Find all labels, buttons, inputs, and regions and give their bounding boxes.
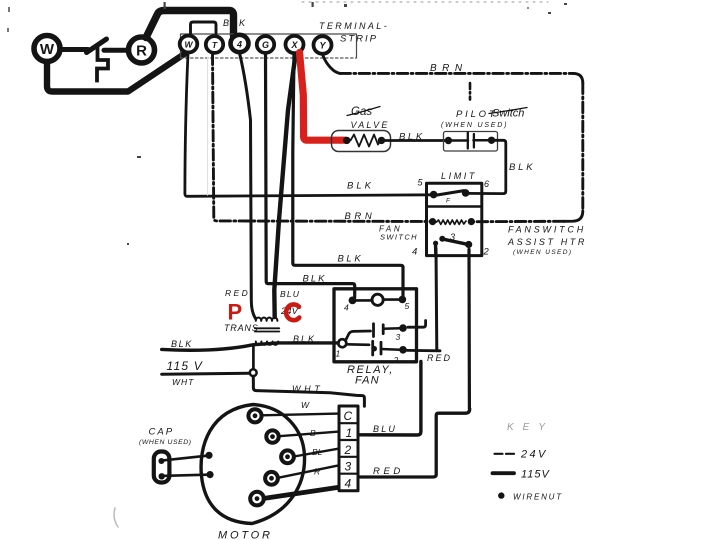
- wire terminal G to relay 4 (BLK): [266, 54, 355, 297]
- capacitor outline: [154, 452, 170, 483]
- pilot switch contact bar 2: [473, 134, 475, 148]
- relay coil terminal dot 5: [399, 296, 407, 304]
- svg-text:6: 6: [484, 179, 489, 189]
- svg-text:LIMIT: LIMIT: [441, 171, 477, 181]
- svg-text:(WHEN USED): (WHEN USED): [139, 439, 192, 446]
- terminal T: [206, 36, 223, 53]
- svg-text:TRANS: TRANS: [224, 323, 259, 333]
- wire BLU run motor block 1 to relay: [359, 362, 421, 436]
- wire terminal T to fan switch heater (BRN dashed): [213, 54, 433, 222]
- SECTION: speckles: [7, 2, 567, 527]
- SECTION: key: [493, 422, 563, 502]
- svg-text:MOTOR: MOTOR: [218, 530, 273, 540]
- motor terminal C: [248, 409, 261, 422]
- thermostat terminal R: [129, 37, 155, 63]
- svg-text:WIRENUT: WIRENUT: [513, 493, 563, 502]
- svg-text:BLK: BLK: [509, 162, 535, 173]
- svg-text:BL: BL: [312, 447, 323, 457]
- relay lower contact arm: [347, 343, 370, 346]
- wire R to strip terminal 4 (BLK): [146, 11, 234, 38]
- svg-text:(WHEN USED): (WHEN USED): [513, 249, 572, 256]
- svg-text:2: 2: [344, 443, 352, 457]
- wire BRN right vertical: [581, 83, 584, 211]
- relay upper contact wire to 3: [383, 327, 400, 330]
- wire 115V BLK feed to relay 1: [162, 343, 339, 350]
- SECTION: fan switch: [379, 218, 587, 409]
- relay coil wire left: [354, 299, 372, 302]
- wire relay 3 stub: [408, 321, 426, 328]
- limit contact dot 6: [462, 189, 470, 197]
- wire BRN stub above pilot switch: [469, 83, 472, 100]
- pilot switch wire from contact: [474, 139, 489, 142]
- svg-text:RED: RED: [427, 353, 452, 363]
- svg-text:BRN: BRN: [345, 211, 376, 222]
- block divider 2/3: [339, 456, 358, 458]
- wire W bottom to strip terminal W: [47, 54, 185, 92]
- pilot switch wire to contact: [451, 139, 468, 142]
- svg-text:1: 1: [346, 426, 353, 440]
- junction dot cap wire top: [205, 452, 212, 459]
- svg-text:TERMINAL-: TERMINAL-: [319, 21, 389, 31]
- svg-text:BLU: BLU: [280, 289, 300, 299]
- motor terminal 3: [265, 472, 278, 485]
- relay upper contact arm: [346, 331, 371, 341]
- thermostat switch blade: [87, 39, 107, 53]
- svg-text:BLK: BLK: [223, 18, 248, 28]
- wire motor 4 to block 4 (115V): [264, 487, 339, 498]
- motor terminal 1: [266, 430, 278, 442]
- pilot switch label flourish: [489, 108, 527, 114]
- relay contact dot 2: [399, 346, 407, 354]
- wire fan switch 4 down to relay 2: [435, 249, 439, 351]
- wire BRN into heater: [471, 220, 564, 223]
- relay coil wire right: [383, 298, 399, 301]
- transformer secondary winding (24V): [256, 318, 278, 321]
- heat anticipator: [97, 47, 108, 81]
- svg-text:24V: 24V: [520, 449, 548, 461]
- svg-text:3: 3: [396, 332, 401, 342]
- terminal 4: [231, 35, 249, 52]
- pilot switch dot left: [445, 137, 452, 144]
- SECTION: transformer + 115V: [162, 288, 365, 406]
- terminal G: [257, 36, 274, 53]
- wire pilot switch to limit 6 (BLK): [466, 140, 506, 193]
- key wirenut dot: [498, 492, 504, 498]
- svg-text:BLK: BLK: [347, 181, 374, 192]
- svg-text:KEY: KEY: [507, 422, 554, 433]
- relay lower contact wire to 2: [381, 348, 400, 351]
- relay contact dot 3: [399, 324, 407, 332]
- relay lower contact blob: [371, 346, 377, 352]
- wire WHT to motor block C: [253, 376, 364, 406]
- terminal Y: [314, 36, 332, 54]
- svg-text:4: 4: [345, 477, 352, 491]
- limit switch blade: [434, 191, 464, 196]
- wire 115V WHT feed: [162, 372, 250, 376]
- wire gas valve to pilot switch (BLK): [385, 139, 448, 142]
- svg-text:WHT: WHT: [172, 377, 194, 387]
- relay upper contact bar 1: [372, 324, 375, 337]
- svg-text:VALVE: VALVE: [351, 120, 390, 130]
- terminal W: [180, 36, 198, 53]
- svg-text:BLK: BLK: [293, 334, 316, 344]
- wire BRN right corner: [573, 73, 583, 83]
- svg-text:RED: RED: [225, 288, 250, 298]
- relay lower contact bar 1: [371, 341, 374, 355]
- terminal strip box: [181, 34, 357, 58]
- SECTION: gas valve / pilot / limit: [332, 106, 536, 256]
- wirenut: [250, 369, 257, 376]
- svg-text:CAP: CAP: [149, 427, 175, 438]
- block divider 1/2: [339, 439, 358, 441]
- wire motor 1 to block 1 (B): [279, 432, 339, 437]
- jumper W-T: [191, 22, 217, 33]
- svg-text:(WHEN USED): (WHEN USED): [441, 122, 508, 129]
- capacitor terminal top: [158, 458, 164, 464]
- svg-text:ASSIST HTR: ASSIST HTR: [507, 237, 587, 247]
- svg-text:5: 5: [405, 301, 410, 311]
- relay lower contact bar 2: [380, 342, 383, 354]
- wire capacitor to motor bottom: [165, 475, 207, 476]
- terminal X: [286, 36, 304, 53]
- svg-text:115 V: 115 V: [167, 359, 203, 373]
- svg-text:P: P: [228, 300, 243, 325]
- svg-text:Y: Y: [319, 41, 326, 51]
- SECTION: motor: [139, 400, 358, 540]
- wire switch to R: [104, 48, 127, 53]
- svg-text:BLK: BLK: [338, 254, 364, 265]
- SECTION: thermostat: [34, 11, 234, 92]
- svg-text:3: 3: [450, 232, 455, 242]
- wire X to gas valve (RED 24V hot): [300, 53, 346, 141]
- wire terminal X to transformer (BLU): [274, 55, 295, 318]
- motor terminal 2: [281, 450, 294, 463]
- SECTION: vertical wires: [185, 53, 583, 319]
- motor terminal block outline: [339, 406, 358, 491]
- capacitor terminal bottom: [159, 473, 165, 479]
- svg-text:R: R: [136, 43, 147, 60]
- relay upper contact bar 2: [382, 325, 385, 334]
- key 24V dashed sample: [495, 453, 515, 455]
- wire terminal Y to BRN line: [323, 55, 341, 74]
- junction dot cap wire bottom: [206, 471, 213, 478]
- svg-text:BLK: BLK: [399, 132, 425, 143]
- SECTION: relay: [334, 289, 470, 477]
- svg-text:BLK: BLK: [303, 274, 327, 285]
- svg-text:W: W: [40, 41, 55, 58]
- svg-text:FAN: FAN: [355, 375, 380, 387]
- relay coil: [372, 294, 383, 305]
- pilot switch contact bar 1: [467, 133, 469, 149]
- block divider 3/4: [339, 473, 358, 475]
- svg-text:WHT: WHT: [292, 384, 323, 394]
- svg-text:X: X: [290, 40, 298, 50]
- wirenut vertical: [252, 346, 255, 370]
- wire terminal X to relay 5 (BLK): [293, 54, 403, 296]
- fan switch contact dot 2: [465, 241, 472, 248]
- gas valve terminal dot left: [343, 137, 350, 144]
- key 115V solid sample: [493, 471, 515, 475]
- relay terminal 1 circle: [338, 339, 346, 347]
- svg-text:R: R: [314, 467, 320, 477]
- svg-text:FANSWITCH: FANSWITCH: [508, 225, 586, 235]
- block divider C/1: [339, 422, 358, 424]
- transformer primary winding (115V): [256, 342, 278, 345]
- svg-text:SWITCH: SWITCH: [380, 233, 418, 242]
- svg-text:5: 5: [418, 178, 424, 188]
- fan switch blade: [442, 239, 468, 245]
- fan switch contact post 4: [434, 243, 438, 254]
- svg-text:4: 4: [344, 303, 349, 313]
- svg-text:T: T: [212, 40, 218, 50]
- SECTION: terminal strip: [180, 18, 389, 58]
- pilot switch outline: [444, 132, 498, 152]
- svg-text:4: 4: [236, 40, 242, 50]
- svg-text:BLK: BLK: [171, 339, 193, 349]
- wire relay 2 to fan switch 4 junction: [407, 349, 440, 352]
- wire RED run fan switch 2 to motor block 3: [359, 409, 470, 477]
- wire capacitor to motor top: [164, 456, 206, 461]
- transformer core: [255, 328, 279, 331]
- gas valve terminal dot right: [378, 137, 385, 144]
- wire motor 2 to block 2 (BL): [294, 449, 339, 457]
- limit box divider: [427, 205, 482, 207]
- svg-text:3: 3: [345, 460, 352, 474]
- gas valve outline: [332, 131, 391, 152]
- svg-text:W: W: [184, 40, 193, 50]
- svg-text:RED: RED: [373, 466, 404, 477]
- svg-text:4: 4: [412, 247, 417, 258]
- svg-text:STRIP: STRIP: [340, 34, 378, 45]
- fan switch assist heater dot left: [429, 218, 436, 225]
- wire W to switch: [61, 47, 88, 52]
- fan switch assist heater dot right: [468, 218, 475, 225]
- wire motor C to block C (W): [262, 414, 339, 416]
- label C (red): [286, 304, 299, 320]
- wire fan switch 2 down (RED): [467, 250, 471, 409]
- wire BRN top run: [340, 72, 573, 75]
- thermostat terminal W: [34, 36, 60, 62]
- svg-text:BRN: BRN: [430, 63, 468, 74]
- svg-text:B: B: [310, 428, 316, 438]
- relay coil terminal dot 4: [349, 297, 357, 305]
- relay box: [334, 289, 417, 362]
- wire terminal 4 to transformer (RED): [240, 53, 256, 319]
- wire motor 3 to block 3 (R): [278, 465, 339, 478]
- motor terminal 4: [250, 492, 264, 506]
- limit contact dot 5: [430, 191, 438, 199]
- gas label flourish: [347, 107, 380, 116]
- svg-text:G: G: [262, 40, 269, 50]
- svg-text:F: F: [446, 198, 451, 205]
- gas valve coil zigzag: [351, 135, 382, 147]
- svg-text:C: C: [344, 409, 353, 423]
- svg-text:115V: 115V: [521, 469, 551, 481]
- limit switch box: [427, 183, 482, 255]
- wire BRN corner to heater: [564, 211, 583, 221]
- wire terminal W to limit 5 (BLK): [185, 54, 434, 197]
- pilot switch dot right: [488, 137, 495, 144]
- motor body: [201, 405, 304, 524]
- svg-text:BLU: BLU: [373, 424, 397, 434]
- svg-text:2: 2: [483, 247, 490, 258]
- svg-text:1: 1: [336, 349, 341, 359]
- svg-text:W: W: [301, 400, 310, 410]
- fan switch assist heater zigzag: [437, 220, 467, 224]
